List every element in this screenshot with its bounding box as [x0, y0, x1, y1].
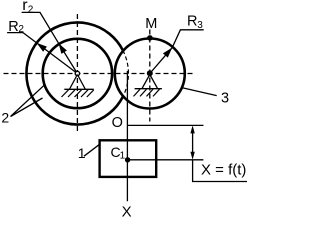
horizontal centerline through both gear centers: [4, 73, 196, 75]
svg-text:R: R: [187, 14, 197, 30]
O level line: [127, 124, 203, 126]
svg-text:1: 1: [120, 150, 126, 161]
svg-text:M: M: [145, 16, 157, 32]
C1 level line: [128, 159, 204, 161]
point M dot on gear 3: [147, 35, 153, 41]
displacement double arrow: [192, 128, 194, 157]
step leader to X=f(t) label: [193, 160, 247, 182]
pivot pin of gear 3: [148, 71, 153, 76]
R3 arrowhead on gear 3 circle: [163, 48, 172, 58]
R2 arrowhead on outer circle: [37, 43, 47, 52]
fixed support of gear 2: [70, 75, 86, 90]
svg-text:3: 3: [197, 20, 203, 31]
gear 3 circle R3: [115, 39, 185, 109]
gear 2 outer circle R2 (solid part): [26, 22, 122, 124]
leader line for label 3: [182, 88, 217, 96]
svg-text:3: 3: [221, 90, 229, 106]
leader lines for label 2: [11, 84, 46, 116]
svg-text:X: X: [122, 204, 132, 218]
svg-text:2: 2: [18, 24, 24, 35]
svg-text:1: 1: [78, 145, 86, 161]
cord line from gear 2 rim down through O and block to X axis: [126, 71, 128, 201]
leader line for label 1: [84, 144, 100, 156]
r2 arrowhead on inner circle: [59, 43, 67, 54]
svg-text:O: O: [112, 115, 123, 131]
svg-text:X = f(t): X = f(t): [201, 161, 246, 178]
center of mass dot C1: [125, 157, 130, 162]
gear 2 inner circle r2: [43, 39, 112, 108]
fixed support of gear 3: [142, 75, 157, 89]
svg-text:R: R: [8, 19, 18, 35]
gear 2 outer circle R2 hidden arc (dashed, behind gear 3): [123, 50, 129, 96]
pivot pin of gear 2: [75, 71, 79, 75]
R3 radius line with label leader: [150, 30, 204, 74]
vertical centerline of gear 3: [149, 30, 151, 122]
svg-text:2: 2: [28, 4, 34, 15]
vertical centerline of gear 2: [76, 14, 78, 134]
R2 radius line with label leader: [7, 33, 77, 74]
block 1 (body): [100, 140, 157, 177]
r2 radius line with label leader: [22, 12, 78, 73]
svg-text:2: 2: [1, 110, 9, 126]
